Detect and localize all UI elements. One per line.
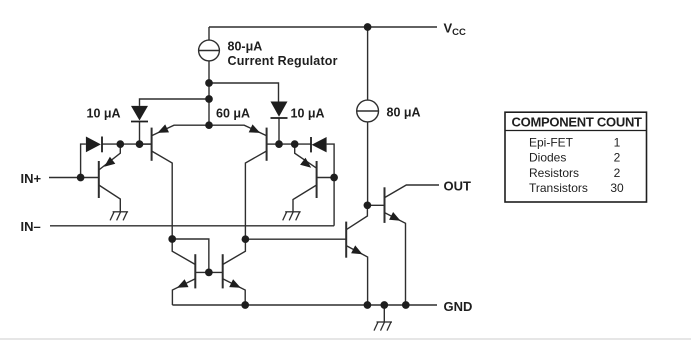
svg-text:2: 2 <box>614 151 621 165</box>
svg-text:10 μA: 10 μA <box>291 106 325 120</box>
svg-text:60 μA: 60 μA <box>216 106 250 120</box>
svg-text:80-μA: 80-μA <box>228 40 263 54</box>
svg-text:Epi-FET: Epi-FET <box>529 135 574 149</box>
svg-text:Resistors: Resistors <box>529 166 579 180</box>
svg-text:1: 1 <box>614 135 621 149</box>
svg-text:IN–: IN– <box>21 219 41 234</box>
svg-text:Current Regulator: Current Regulator <box>228 54 338 68</box>
svg-text:30: 30 <box>610 181 624 195</box>
svg-text:VCC: VCC <box>444 21 467 39</box>
svg-text:80 μA: 80 μA <box>387 106 421 120</box>
svg-text:2: 2 <box>614 166 621 180</box>
svg-text:OUT: OUT <box>444 179 472 194</box>
svg-text:IN+: IN+ <box>21 171 42 186</box>
svg-text:10 μA: 10 μA <box>87 106 121 120</box>
svg-text:Diodes: Diodes <box>529 151 566 165</box>
svg-text:COMPONENT COUNT: COMPONENT COUNT <box>512 115 643 130</box>
svg-text:GND: GND <box>444 299 473 314</box>
svg-text:Transistors: Transistors <box>529 181 588 195</box>
